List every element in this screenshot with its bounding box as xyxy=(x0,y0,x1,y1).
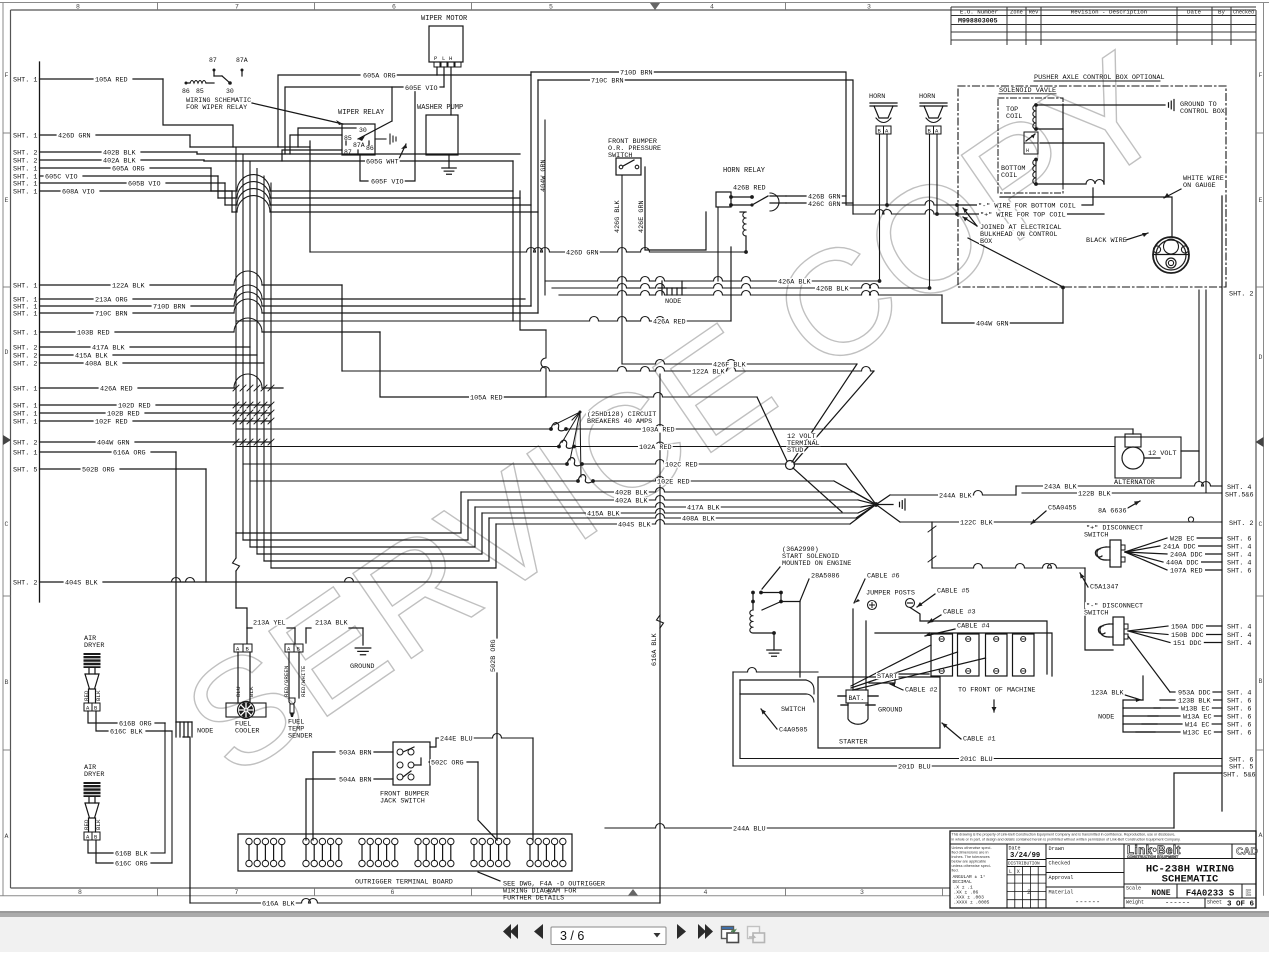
svg-text:SHT. 1: SHT. 1 xyxy=(13,449,37,457)
12 volt terminal stud xyxy=(786,461,843,513)
svg-text:Rev: Rev xyxy=(1029,9,1039,15)
svg-text:CAD: CAD xyxy=(1236,847,1258,858)
zone column numbers top xyxy=(76,3,871,11)
wiper motor xyxy=(421,15,468,115)
svg-text:X: X xyxy=(1017,869,1020,875)
svg-text:SHT. 1: SHT. 1 xyxy=(13,402,37,410)
wire 608A VIO from SHT. 1 xyxy=(13,188,232,196)
wire 426B BLK xyxy=(552,284,931,290)
svg-text:201D BLU: 201D BLU xyxy=(898,764,931,772)
svg-text:STARTER: STARTER xyxy=(839,739,868,747)
svg-text:122B BLK: 122B BLK xyxy=(1078,491,1112,499)
svg-text:87A: 87A xyxy=(236,57,248,64)
svg-text:102E RED: 102E RED xyxy=(657,479,690,487)
wire 105A RED from SHT. 1 xyxy=(13,76,163,84)
svg-text:426A BLK: 426A BLK xyxy=(778,279,812,287)
svg-text:953A DDC: 953A DDC xyxy=(1178,690,1211,698)
svg-text:103A RED: 103A RED xyxy=(642,427,675,435)
svg-text:213A YEL: 213A YEL xyxy=(253,620,286,628)
svg-text:in whole or in part, of design: in whole or in part, of design and detai… xyxy=(952,838,1181,842)
start solenoid xyxy=(750,567,800,677)
svg-text:Revision - Description: Revision - Description xyxy=(1071,8,1148,15)
svg-text:SHT. 1: SHT. 1 xyxy=(13,418,37,426)
svg-text:CABLE #6: CABLE #6 xyxy=(867,573,900,581)
wire 504A BRN xyxy=(306,779,393,840)
svg-text:85: 85 xyxy=(196,88,204,95)
wire 502B ORG vertical xyxy=(490,582,498,840)
revision table xyxy=(951,7,1256,45)
svg-text:BLACK WIRE: BLACK WIRE xyxy=(1086,237,1127,245)
svg-text:GROUND: GROUND xyxy=(878,707,902,715)
svg-text:SCHEMATIC: SCHEMATIC xyxy=(1162,874,1219,886)
svg-text:W13A EC: W13A EC xyxy=(1183,713,1212,721)
wire 402B BLK mid xyxy=(461,488,876,505)
svg-text:START: START xyxy=(877,673,897,681)
solenoid valve box xyxy=(998,94,1063,193)
svg-text:6: 6 xyxy=(392,4,396,11)
svg-text:SHT. 1: SHT. 1 xyxy=(13,282,37,290)
svg-text:SHT. 1: SHT. 1 xyxy=(13,165,37,173)
svg-text:CABLE #3: CABLE #3 xyxy=(943,609,976,617)
wire 503A BRN xyxy=(313,752,393,840)
air dryer 2 xyxy=(83,764,104,841)
svg-text:402A BLK: 402A BLK xyxy=(615,498,649,506)
wire 502B ORG from SHT. 5 xyxy=(13,466,206,474)
svg-text:87: 87 xyxy=(209,57,217,64)
svg-text:CABLE #4: CABLE #4 xyxy=(957,623,990,631)
svg-text:SHT. 1: SHT. 1 xyxy=(13,76,37,84)
right schematic boundary line xyxy=(1221,196,1223,811)
svg-text:F: F xyxy=(5,72,9,79)
svg-text:SWITCH: SWITCH xyxy=(1084,610,1108,618)
svg-text:3 OF 6: 3 OF 6 xyxy=(1227,901,1255,909)
svg-text:SHT. 6: SHT. 6 xyxy=(1227,706,1251,714)
cable 5 label xyxy=(917,594,935,607)
wire 953A DDC xyxy=(1170,690,1251,698)
wire 102F RED from SHT. 1 xyxy=(13,418,271,426)
wire 213A ORG from SHT. 1 xyxy=(13,285,525,304)
wire 710C BRN from SHT. 1 xyxy=(13,299,538,318)
svg-text:122A BLK: 122A BLK xyxy=(112,282,146,290)
svg-text:605A ORG: 605A ORG xyxy=(363,73,396,81)
bottom coil inductor wire xyxy=(1036,180,1104,185)
gauge xyxy=(1153,237,1189,273)
wire 402A BLK from SHT. 2 xyxy=(13,157,204,165)
svg-text:SHT. 1: SHT. 1 xyxy=(13,188,37,196)
svg-text:426A RED: 426A RED xyxy=(653,319,686,327)
svg-text:426A RED: 426A RED xyxy=(100,385,133,393)
svg-text:616A BLK: 616A BLK xyxy=(262,901,296,909)
wire 102B RED from SHT. 1 xyxy=(13,410,271,418)
horn relay coil xyxy=(740,212,748,254)
fuel cooler xyxy=(226,702,266,736)
svg-text:30: 30 xyxy=(359,127,367,134)
svg-text:SWITCH: SWITCH xyxy=(781,706,805,714)
svg-text:C5A1347: C5A1347 xyxy=(1090,584,1119,592)
wire 426A RED mid xyxy=(236,247,731,321)
svg-text:8A 6636: 8A 6636 xyxy=(1098,508,1127,516)
outer switch loop xyxy=(733,668,818,767)
svg-text:CONSTRUCTION EQUIPMENT: CONSTRUCTION EQUIPMENT xyxy=(1127,855,1179,859)
diagonal wire to box bottom junction xyxy=(968,238,1065,289)
svg-text:H: H xyxy=(1026,148,1029,154)
fuel temp sender xyxy=(288,698,312,741)
svg-text:SHT. 2: SHT. 2 xyxy=(13,579,37,587)
start wire xyxy=(869,674,929,683)
svg-text:C5A0455: C5A0455 xyxy=(1048,505,1077,513)
svg-text:605A ORG: 605A ORG xyxy=(112,165,145,173)
svg-text:426D GRN: 426D GRN xyxy=(58,132,91,140)
svg-text:8: 8 xyxy=(76,4,80,11)
node comb right xyxy=(1098,676,1251,738)
svg-text:B: B xyxy=(1259,678,1263,685)
svg-text:201C BLU: 201C BLU xyxy=(960,756,993,764)
wire cascade top-left into bundle xyxy=(190,135,232,212)
wire 408A BLK mid xyxy=(489,505,876,519)
bottom coil xyxy=(1001,158,1038,186)
svg-text:Drawn: Drawn xyxy=(1049,846,1065,852)
wiper relay input stubs xyxy=(282,128,342,161)
svg-text:SHT. 6: SHT. 6 xyxy=(1227,568,1251,576)
svg-text:123A BLK: 123A BLK xyxy=(1091,690,1125,698)
svg-text:SHT. 2: SHT. 2 xyxy=(13,352,37,360)
svg-text:241A DDC: 241A DDC xyxy=(1163,543,1196,551)
front bumper jack switch xyxy=(380,742,430,806)
wire 502B ORG drop xyxy=(205,469,207,582)
wire 404W GRN run xyxy=(545,120,1063,323)
relay noise arrow symbol xyxy=(375,134,396,144)
svg-text:SHT. 4: SHT. 4 xyxy=(1227,632,1251,640)
wire 102A RED xyxy=(236,442,1115,447)
wire 426D GRN long xyxy=(310,141,746,252)
svg-text:616A ORG: 616A ORG xyxy=(113,449,146,457)
wire 426E GRN xyxy=(638,167,706,250)
svg-text:SHT. 4: SHT. 4 xyxy=(1227,544,1251,552)
svg-text:122A BLK: 122A BLK xyxy=(692,369,726,377)
svg-text:426G BLK: 426G BLK xyxy=(614,199,622,233)
svg-text:102D RED: 102D RED xyxy=(118,402,151,410)
title block xyxy=(950,831,1258,909)
wire 616A BLK bottom xyxy=(190,899,660,904)
svg-text:616C ORG: 616C ORG xyxy=(115,861,148,869)
wire 404S BLK left run xyxy=(103,578,490,583)
watermark SERVICE COPY xyxy=(156,19,1196,807)
joined at electrical bulkhead note xyxy=(963,208,977,226)
cable 6 label xyxy=(854,579,865,603)
wire 426B GRN xyxy=(786,195,846,197)
svg-text:D: D xyxy=(5,349,9,356)
svg-text:E: E xyxy=(5,197,9,204)
svg-text:M998803005: M998803005 xyxy=(958,18,998,25)
fuel cooler connector xyxy=(234,644,255,703)
svg-text:CABLE #1: CABLE #1 xyxy=(963,736,996,744)
wire 244A BLU xyxy=(605,824,1174,829)
wire 244A BLK xyxy=(890,486,1016,495)
svg-text:87A: 87A xyxy=(353,142,365,149)
svg-text:FOR WIPER RELAY: FOR WIPER RELAY xyxy=(186,104,247,112)
svg-text:605E VIO: 605E VIO xyxy=(405,85,438,93)
svg-text:STUD: STUD xyxy=(787,447,803,455)
cable 3 label xyxy=(928,615,941,623)
black wire label xyxy=(1086,233,1148,245)
svg-text:Date: Date xyxy=(1187,8,1201,15)
svg-text:415A BLK: 415A BLK xyxy=(75,352,109,360)
svg-text:BOX: BOX xyxy=(980,238,992,246)
svg-text:240A DDC: 240A DDC xyxy=(1170,551,1203,559)
svg-text:SWITCH: SWITCH xyxy=(608,152,632,160)
wire 213A BLK xyxy=(306,628,363,645)
svg-text:F: F xyxy=(1259,72,1263,79)
wire 605C VIO from SHT. 1 xyxy=(13,173,218,181)
wire 213A YEL xyxy=(247,628,295,643)
svg-text:404W GRN: 404W GRN xyxy=(97,439,130,447)
wire 244E BLU xyxy=(430,734,533,841)
123A BLK label xyxy=(1125,695,1141,702)
svg-text:This drawing is the property o: This drawing is the property of Link-Bel… xyxy=(952,833,1176,837)
minus disconnect fan wires xyxy=(1128,624,1251,693)
svg-text:SHT.5&6: SHT.5&6 xyxy=(1225,492,1254,500)
wire 426F BLK mid xyxy=(622,360,857,462)
solenoid interconnect wires xyxy=(1036,105,1104,184)
svg-text:BLK: BLK xyxy=(248,686,255,697)
svg-text:HORN: HORN xyxy=(869,93,885,101)
svg-text:C: C xyxy=(5,521,9,528)
starter enclosure box xyxy=(818,677,940,748)
wire 605A ORG from SHT. 1 xyxy=(13,165,211,173)
toolbar page navigation xyxy=(0,913,1269,950)
svg-text:404S BLK: 404S BLK xyxy=(618,522,652,530)
alternator feed wires xyxy=(1198,451,1200,482)
svg-text:SHT. 2: SHT. 2 xyxy=(1229,291,1253,299)
pusher box verticals to sht4 xyxy=(1199,290,1206,493)
svg-text:504A BRN: 504A BRN xyxy=(339,777,372,785)
svg-text:Checked: Checked xyxy=(1049,861,1071,867)
svg-text:Zone: Zone xyxy=(1010,9,1023,15)
wire 402A BLK mid xyxy=(468,496,876,505)
svg-text:SHT. 2: SHT. 2 xyxy=(13,360,37,368)
wire 426A BLK xyxy=(545,277,881,283)
svg-text:D: D xyxy=(1259,354,1263,361)
svg-text:CONTROL BOX: CONTROL BOX xyxy=(1180,108,1225,116)
svg-text:BAT.: BAT. xyxy=(849,695,865,702)
svg-text:244A BLK: 244A BLK xyxy=(939,493,973,501)
svg-text:HORN: HORN xyxy=(919,93,935,101)
svg-text:Material: Material xyxy=(1049,890,1074,896)
svg-text:86: 86 xyxy=(182,88,190,95)
bundle drop to fuel cooler xyxy=(233,533,248,628)
wire band to wiper relay area xyxy=(190,147,538,212)
svg-text:SHT. 1: SHT. 1 xyxy=(13,385,37,393)
svg-text:616B ORG: 616B ORG xyxy=(119,721,152,729)
zone column numbers bottom xyxy=(78,888,1031,896)
wire 103A RED xyxy=(236,425,1133,435)
wire 402B BLK from SHT. 2 xyxy=(13,149,197,157)
horn 1 xyxy=(869,93,897,135)
svg-text:SHT. 5: SHT. 5 xyxy=(1229,764,1253,772)
svg-text:440A DDC: 440A DDC xyxy=(1166,559,1199,567)
svg-text:COOLER: COOLER xyxy=(235,728,259,736)
bulkhead junction fan xyxy=(874,495,905,522)
svg-text:605B VIO: 605B VIO xyxy=(128,180,161,188)
svg-text:404W GRN: 404W GRN xyxy=(540,159,548,192)
wire 426D GRN from SHT. 1 xyxy=(13,132,190,140)
alternator xyxy=(1115,434,1199,478)
svg-text:408A BLK: 408A BLK xyxy=(682,516,716,524)
horn 2 xyxy=(919,93,947,135)
svg-text:SHT. 4: SHT. 4 xyxy=(1227,552,1251,560)
svg-text:102C RED: 102C RED xyxy=(665,462,698,470)
zone row letters left xyxy=(3,72,11,840)
svg-text:502B ORG: 502B ORG xyxy=(82,466,115,474)
cable fan wires from battery xyxy=(851,645,986,690)
plus disconnect switch xyxy=(1095,540,1125,567)
svg-text:408A BLK: 408A BLK xyxy=(85,360,119,368)
svg-text:6: 6 xyxy=(391,889,395,896)
fuel temp sender connector xyxy=(283,644,307,698)
svg-text:SHT. 2: SHT. 2 xyxy=(13,149,37,157)
svg-text:CABLE #2: CABLE #2 xyxy=(905,687,938,695)
svg-text:SHT. 6: SHT. 6 xyxy=(1227,722,1251,730)
wire 122A BLK mid xyxy=(342,285,874,463)
vertical wire bundle xyxy=(236,147,271,568)
wire 605B VIO from SHT. 1 xyxy=(13,180,225,188)
svg-text:SHT. 6: SHT. 6 xyxy=(1227,698,1251,706)
wire 502C ORG xyxy=(429,762,497,840)
svg-text:.XXXX ± .0005: .XXXX ± .0005 xyxy=(954,900,990,906)
wire 605A ORG top xyxy=(278,75,531,147)
wire 122A BLK from SHT. 1 xyxy=(13,271,342,290)
horn relay drop wire xyxy=(717,207,719,281)
svg-text:TO FRONT OF MACHINE: TO FRONT OF MACHINE xyxy=(958,687,1036,695)
svg-text:"+" WIRE FOR TOP COIL: "+" WIRE FOR TOP COIL xyxy=(980,212,1066,220)
svg-text:A: A xyxy=(5,833,9,840)
svg-text:SENDER: SENDER xyxy=(288,733,312,741)
svg-text:402B BLK: 402B BLK xyxy=(615,490,649,498)
wire 102D RED from SHT. 1 xyxy=(13,402,271,410)
svg-text:JACK SWITCH: JACK SWITCH xyxy=(380,798,425,806)
svg-text:SHT. 5: SHT. 5 xyxy=(13,466,37,474)
svg-text:SHT. 4: SHT. 4 xyxy=(1227,690,1251,698)
svg-text:ALTERNATOR: ALTERNATOR xyxy=(1114,479,1155,487)
svg-text:107A RED: 107A RED xyxy=(1170,567,1203,575)
minus disconnect switch xyxy=(1098,617,1128,645)
wire for bottom coil note xyxy=(955,203,959,207)
wire 122C BLK xyxy=(900,517,1253,528)
svg-text:WASHER PUMP: WASHER PUMP xyxy=(417,104,463,112)
wire 616A ORG from SHT. 1 xyxy=(13,449,176,457)
svg-text:402B BLK: 402B BLK xyxy=(103,149,137,157)
wire 102C RED xyxy=(243,460,876,505)
svg-text:87: 87 xyxy=(344,149,352,156)
solenoid valve symbol xyxy=(1024,132,1038,154)
wire 404S BLK from SHT. 2 xyxy=(13,579,497,587)
disconnect loop wire xyxy=(928,522,1113,650)
svg-text:710C BRN: 710C BRN xyxy=(591,78,624,86)
svg-text:SHT. 2: SHT. 2 xyxy=(13,157,37,165)
svg-text:W13B EC: W13B EC xyxy=(1181,705,1210,713)
svg-text:fied.: fied. xyxy=(952,869,959,873)
wire staircase 402B 402A 417A 415A 408A 404S xyxy=(236,492,496,568)
svg-text:JUMPER POSTS: JUMPER POSTS xyxy=(866,590,915,598)
wire 404W GRN from SHT. 2 xyxy=(13,439,271,447)
svg-text:W14 EC: W14 EC xyxy=(1185,721,1209,729)
svg-text:415A BLK: 415A BLK xyxy=(587,511,621,519)
svg-text:502B ORG: 502B ORG xyxy=(490,639,498,672)
wire 243A BLK xyxy=(1016,482,1251,493)
svg-text:105A RED: 105A RED xyxy=(95,76,128,84)
svg-text:------: ------ xyxy=(1075,899,1100,907)
wire 103B RED from SHT. 1 xyxy=(13,318,380,337)
svg-text:244A BLU: 244A BLU xyxy=(733,826,766,834)
svg-text:SHT. 4: SHT. 4 xyxy=(1227,624,1251,632)
svg-text:102F RED: 102F RED xyxy=(95,418,128,426)
wire 426C GRN xyxy=(786,202,853,204)
svg-text:402A BLK: 402A BLK xyxy=(103,157,137,165)
svg-text:616C BLK: 616C BLK xyxy=(110,729,144,737)
C5A1347 label xyxy=(1080,573,1088,587)
svg-text:SOLENOID VAVLE: SOLENOID VAVLE xyxy=(999,87,1056,95)
cable 1 label xyxy=(942,723,961,739)
svg-text:12 VOLT: 12 VOLT xyxy=(1148,450,1177,458)
svg-text:426B BLK: 426B BLK xyxy=(816,286,850,294)
battery xyxy=(838,677,878,724)
svg-text:28A5086: 28A5086 xyxy=(811,573,840,581)
svg-text:426D GRN: 426D GRN xyxy=(566,250,599,258)
svg-text:fied dimensions are in: fied dimensions are in xyxy=(952,851,989,855)
svg-text:NODE: NODE xyxy=(197,728,213,736)
wire horn feed to box xyxy=(846,188,1104,216)
svg-text:CABLE #5: CABLE #5 xyxy=(937,588,970,596)
front bumper O.R. pressure switch xyxy=(608,138,661,175)
svg-text:417A BLK: 417A BLK xyxy=(687,505,721,513)
svg-text:417A BLK: 417A BLK xyxy=(92,344,126,352)
svg-text:7: 7 xyxy=(235,4,239,11)
sheet 2 reference top right xyxy=(1229,291,1253,299)
cable 2 label xyxy=(890,683,903,690)
jumper posts xyxy=(868,599,915,610)
wire 417A BLK mid xyxy=(475,503,876,508)
C4A0505 label xyxy=(761,709,777,729)
horn 1 wires xyxy=(880,134,888,281)
node comb center xyxy=(658,281,686,306)
svg-text:P: P xyxy=(434,55,437,62)
svg-text:605F VIO: 605F VIO xyxy=(371,179,404,187)
svg-text:Date: Date xyxy=(1009,846,1021,852)
svg-text:SHT. 4: SHT. 4 xyxy=(1227,640,1251,648)
svg-text:710D BRN: 710D BRN xyxy=(153,303,186,311)
wire 408A BLK from SHT. 2 xyxy=(13,360,264,368)
wire 616A BLK vertical xyxy=(651,374,664,903)
svg-text:SHT. 4: SHT. 4 xyxy=(1227,560,1251,568)
svg-text:By: By xyxy=(1218,8,1225,15)
plus disconnect fan wires xyxy=(1125,536,1251,576)
svg-text:710C BRN: 710C BRN xyxy=(95,310,128,318)
battery cable blocks xyxy=(931,634,1034,676)
washer pump xyxy=(417,104,463,155)
svg-text:DRYER: DRYER xyxy=(84,642,104,650)
svg-text:404W GRN: 404W GRN xyxy=(976,321,1009,329)
svg-text:404S BLK: 404S BLK xyxy=(65,579,99,587)
svg-text:W2B EC: W2B EC xyxy=(1170,535,1194,543)
cable 4 label xyxy=(925,629,955,636)
svg-text:NODE: NODE xyxy=(1098,714,1114,722)
svg-text:E: E xyxy=(1259,197,1263,204)
pusher axle control box outline xyxy=(958,74,1226,287)
svg-text:B: B xyxy=(5,679,9,686)
svg-text:SHT. 6: SHT. 6 xyxy=(1227,714,1251,722)
svg-text:WIPER RELAY: WIPER RELAY xyxy=(338,109,385,117)
svg-text:SHT. 1: SHT. 1 xyxy=(13,180,37,188)
